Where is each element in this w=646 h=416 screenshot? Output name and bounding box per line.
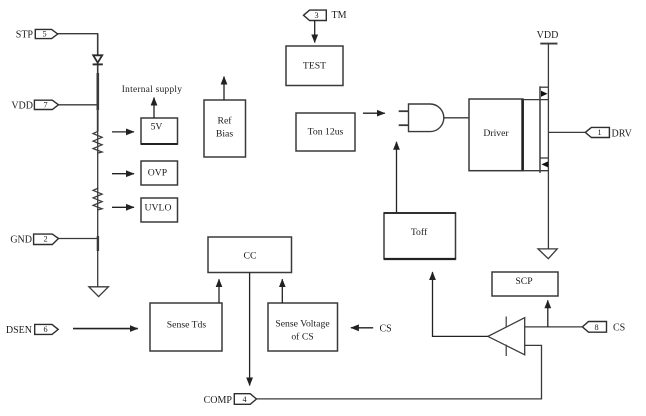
- svg-text:DRV: DRV: [612, 128, 633, 139]
- svg-text:Sense Tds: Sense Tds: [167, 320, 207, 331]
- svg-text:OVP: OVP: [148, 168, 167, 179]
- svg-text:5: 5: [42, 30, 46, 39]
- svg-text:STP: STP: [16, 29, 34, 40]
- svg-text:Sense Voltage: Sense Voltage: [275, 319, 329, 330]
- svg-text:of CS: of CS: [291, 332, 313, 343]
- svg-text:COMP: COMP: [204, 395, 233, 406]
- svg-text:CS: CS: [380, 323, 392, 334]
- svg-text:Bias: Bias: [216, 129, 233, 140]
- svg-text:3: 3: [314, 11, 318, 20]
- svg-text:5V: 5V: [151, 122, 163, 133]
- svg-text:Internal supply: Internal supply: [122, 85, 183, 95]
- svg-text:7: 7: [43, 101, 47, 110]
- svg-text:8: 8: [594, 323, 598, 332]
- svg-text:2: 2: [43, 235, 47, 244]
- svg-text:6: 6: [43, 325, 47, 334]
- svg-text:DSEN: DSEN: [6, 325, 32, 336]
- svg-text:CC: CC: [244, 251, 257, 262]
- svg-text:GND: GND: [10, 235, 32, 246]
- svg-text:UVLO: UVLO: [145, 203, 172, 214]
- svg-text:Ref: Ref: [218, 116, 233, 127]
- svg-text:1: 1: [597, 128, 601, 137]
- svg-text:4: 4: [242, 395, 246, 404]
- svg-text:Ton 12us: Ton 12us: [308, 127, 344, 138]
- svg-text:Toff: Toff: [411, 227, 428, 238]
- svg-text:VDD: VDD: [11, 101, 33, 112]
- svg-text:VDD: VDD: [537, 30, 559, 41]
- svg-text:TEST: TEST: [303, 61, 326, 72]
- svg-text:Driver: Driver: [483, 128, 509, 139]
- svg-text:SCP: SCP: [515, 276, 532, 287]
- svg-text:CS: CS: [613, 323, 625, 334]
- svg-text:TM: TM: [332, 10, 347, 21]
